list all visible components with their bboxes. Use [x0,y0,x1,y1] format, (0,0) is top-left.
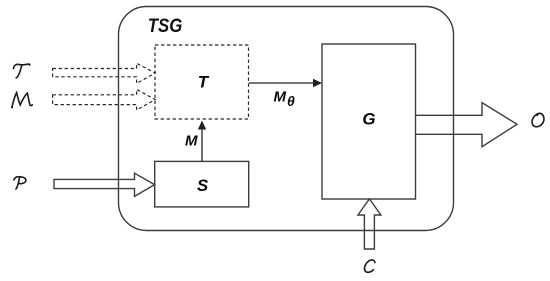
label script O [532,113,544,127]
outer box TSG [119,7,454,231]
wire S to T [201,127,203,161]
label script T [13,64,29,78]
block G [322,44,416,199]
svg-text:M: M [185,133,198,150]
arrowhead into T [198,121,206,130]
label script C [364,260,374,272]
input arrow T (dashed block arrow) [53,63,156,83]
svg-text:S: S [197,176,209,195]
block S [155,161,249,207]
svg-text:T: T [198,73,210,92]
input arrow M (dashed block arrow) [53,89,156,110]
svg-text:θ: θ [287,93,295,109]
wire T to G [249,82,316,84]
label script P [14,177,26,189]
label script M [11,93,32,109]
svg-text:G: G [362,110,375,129]
input arrow P (block arrow) [54,173,155,196]
block T (dashed) [155,45,249,119]
input arrow C (block arrow up) [358,199,381,249]
svg-text:TSG: TSG [148,16,183,37]
svg-text:M: M [274,89,287,106]
arrowhead into G [313,79,322,87]
output arrow O (block arrow) [416,103,517,147]
